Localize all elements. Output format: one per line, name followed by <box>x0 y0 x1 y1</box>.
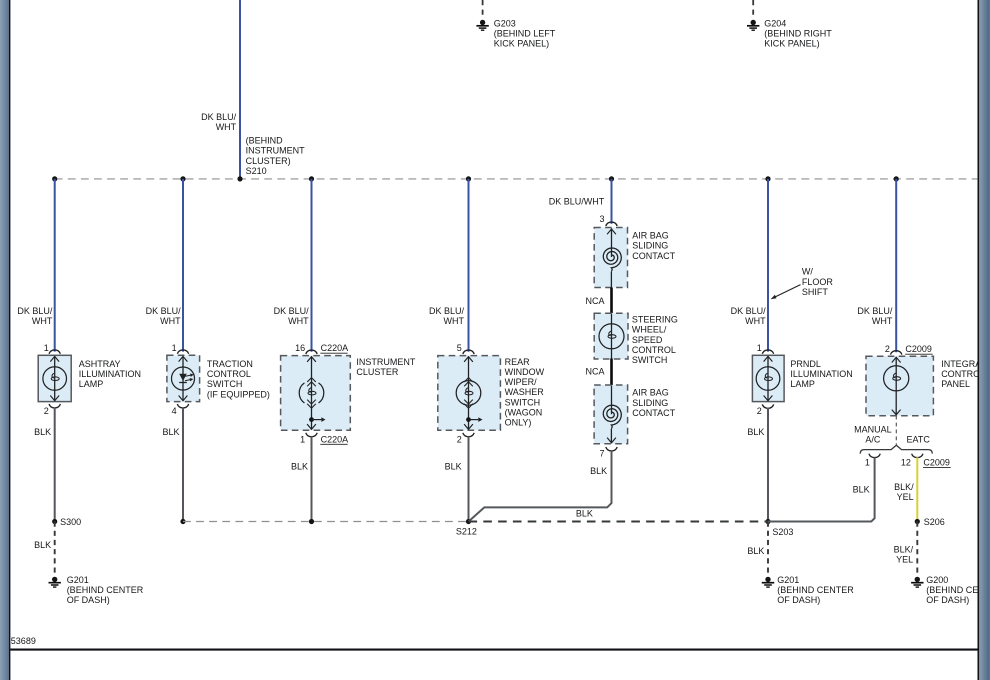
svg-text:SPEED: SPEED <box>632 335 663 345</box>
wire: BLK air bag to S212 <box>469 451 612 522</box>
svg-text:(BEHIND RIGHT: (BEHIND RIGHT <box>764 29 832 39</box>
chevrons up (cluster) <box>307 378 316 387</box>
internal circuit line (ashtray) <box>54 356 56 401</box>
label S206 <box>924 517 945 527</box>
svg-text:CLUSTER): CLUSTER) <box>246 156 291 166</box>
component box (air bag sliding contact upper) <box>594 228 627 288</box>
wire: DK BLU/WHT to air bag sliding contact <box>611 179 613 224</box>
arrow up (traction) <box>179 356 188 361</box>
svg-text:4: 4 <box>172 406 177 416</box>
svg-text:A/C: A/C <box>865 435 881 445</box>
connector half C220A top <box>306 350 317 354</box>
svg-text:YEL: YEL <box>897 492 914 502</box>
wire: DK BLU/WHT to wiper switch <box>468 179 470 352</box>
left window frame bar <box>0 0 9 680</box>
internal circuit line (wiper) <box>468 356 470 429</box>
svg-text:WHT: WHT <box>444 316 465 326</box>
lamp L7 ICP illumination <box>884 366 909 391</box>
internal circuit line (steering sw) <box>611 314 613 359</box>
junction air bag branch <box>609 176 614 181</box>
svg-text:WHT: WHT <box>32 316 53 326</box>
svg-text:53689: 53689 <box>11 636 36 646</box>
label INTEGRATED CONTROL PANEL <box>941 359 990 389</box>
label BLK/YEL (S206 ground leg) <box>894 544 914 564</box>
connector half (ashtray bottom) <box>49 404 60 408</box>
wire: DK BLU/WHT to PRNDL lamp <box>767 179 769 352</box>
label S203 <box>772 527 793 537</box>
svg-text:C2009: C2009 <box>905 344 932 354</box>
junction cluster branch <box>309 176 314 181</box>
junction S203 <box>765 519 770 524</box>
junction wiper branch <box>466 176 471 181</box>
connector half (wiper top) <box>463 350 474 354</box>
wire: BLK traction to bus <box>182 408 184 522</box>
pin 2 (wiper switch) <box>457 434 462 444</box>
label STEERING WHEEL/SPEED CONTROL SWITCH <box>632 315 678 365</box>
arrow up (ashtray) <box>50 356 59 361</box>
connector half (manual A/C) <box>869 454 880 458</box>
svg-text:NCA: NCA <box>585 296 604 306</box>
wire: DK BLU/WHT to instrument cluster <box>311 179 313 352</box>
label BLK (traction) <box>162 427 179 437</box>
label splice S210 (BEHIND INSTRUMENT CLUSTER) <box>246 136 305 176</box>
svg-text:CONTROL: CONTROL <box>632 345 676 355</box>
junction S300 <box>52 519 57 524</box>
wire: BLK manual A/C to S203 <box>768 457 875 521</box>
svg-text:BLK: BLK <box>291 462 308 472</box>
arrow down (cluster) <box>307 424 316 429</box>
svg-text:(BEHIND LEFT: (BEHIND LEFT <box>494 29 556 39</box>
svg-text:OF DASH): OF DASH) <box>926 595 969 605</box>
pin 2 (ashtray lamp) <box>44 406 49 416</box>
label BLK (manual A/C) <box>853 485 870 495</box>
svg-text:MANUAL: MANUAL <box>854 424 892 434</box>
pin 12 (EATC) <box>901 457 911 467</box>
junction traction branch <box>180 176 185 181</box>
svg-text:BLK: BLK <box>445 462 462 472</box>
component box (traction switch) <box>167 355 200 401</box>
svg-text:DK BLU/: DK BLU/ <box>274 306 310 316</box>
svg-text:CONTROL: CONTROL <box>207 369 251 379</box>
svg-text:INSTRUMENT: INSTRUMENT <box>246 146 305 156</box>
svg-text:S206: S206 <box>924 517 945 527</box>
pin 16 (cluster) <box>295 343 305 353</box>
wire: DK BLU/WHT feed from fuse panel <box>239 0 241 179</box>
svg-text:WHT: WHT <box>160 316 181 326</box>
pin 1 (cluster) <box>300 434 305 444</box>
svg-text:OF DASH): OF DASH) <box>67 595 110 605</box>
label BLK (cluster) <box>291 462 308 472</box>
arrow up (PRNDL) <box>764 356 773 361</box>
lamp L6 PRNDL illumination <box>756 367 780 391</box>
options bracket <box>860 445 932 453</box>
svg-text:DK BLU/: DK BLU/ <box>857 306 893 316</box>
arrow up (cluster) <box>307 357 316 362</box>
svg-text:1: 1 <box>172 343 177 353</box>
svg-text:BLK: BLK <box>853 485 870 495</box>
svg-text:WHT: WHT <box>288 316 309 326</box>
lamp symbol steering wheel switch <box>599 324 624 349</box>
svg-text:3: 3 <box>599 214 604 224</box>
svg-text:S300: S300 <box>60 517 81 527</box>
branch junction + arrow (cluster) <box>309 417 325 422</box>
connector label C220A (top) <box>320 343 348 353</box>
svg-text:BLK/: BLK/ <box>894 544 914 554</box>
label S212 <box>456 527 477 537</box>
svg-text:KICK PANEL): KICK PANEL) <box>764 39 819 49</box>
connector half (PRNDL top) <box>762 350 773 354</box>
pin 4 (traction switch) <box>172 406 177 416</box>
connector label C2009 (bottom) <box>923 457 951 467</box>
svg-text:BLK/: BLK/ <box>894 482 914 492</box>
svg-text:WHT: WHT <box>872 316 893 326</box>
wire: BLK wiper to S212 <box>468 436 470 521</box>
wire: BLK/YEL EATC to S206 <box>916 457 918 521</box>
pin 1 (PRNDL lamp) <box>757 343 762 353</box>
label BLK (S300 ground leg) <box>34 540 51 550</box>
connector half (PRNDL bottom) <box>762 404 773 408</box>
svg-text:W/: W/ <box>802 267 813 277</box>
wire: NCA segment upper <box>610 288 613 314</box>
wire: dashed BLK S300 to G201 <box>54 522 56 573</box>
svg-text:OF DASH): OF DASH) <box>777 595 820 605</box>
arrow down (wiper) <box>464 424 473 429</box>
internal line entry (air bag lower) <box>611 386 613 415</box>
wire: NCA segment lower <box>610 358 613 385</box>
label DK BLU/WHT (ICP) <box>857 306 893 326</box>
label DK BLU/WHT (traction) <box>146 306 182 326</box>
svg-text:SWITCH: SWITCH <box>207 379 243 389</box>
connector half (EATC) <box>912 454 923 458</box>
junction cluster/bus <box>309 519 314 524</box>
ground G200 <box>911 577 923 587</box>
label BLK (air bag) <box>590 466 607 476</box>
arrow down (air bag lower) <box>607 438 616 443</box>
svg-text:AIR BAG: AIR BAG <box>632 388 669 398</box>
arrow down (traction) <box>179 396 188 401</box>
svg-text:DK BLU/: DK BLU/ <box>731 306 767 316</box>
label INSTRUMENT CLUSTER <box>356 357 415 377</box>
pin 1 (traction switch) <box>172 343 177 353</box>
svg-text:BLK: BLK <box>162 427 179 437</box>
component box (air bag sliding contact lower) <box>594 385 628 444</box>
label MANUAL A/C <box>854 424 892 444</box>
arrow up (ICP) <box>892 357 901 362</box>
svg-text:DK BLU/WHT: DK BLU/WHT <box>549 196 605 206</box>
svg-text:BLK: BLK <box>590 466 607 476</box>
svg-text:SWITCH: SWITCH <box>632 355 668 365</box>
label DK BLU/WHT (air bag) <box>549 196 605 206</box>
label DK BLU/WHT (ashtray) <box>17 306 53 326</box>
switch symbol Q traction control (LED) <box>172 367 195 390</box>
connector half C2009 top <box>891 351 902 355</box>
connector half (traction top) <box>177 350 188 354</box>
svg-text:G204: G204 <box>764 19 786 29</box>
connector label C2009 (top) <box>905 344 933 354</box>
svg-text:CONTACT: CONTACT <box>632 251 675 261</box>
svg-text:PANEL: PANEL <box>941 379 970 389</box>
svg-text:2: 2 <box>44 406 49 416</box>
label NCA (lower) <box>585 366 604 376</box>
connector half (ashtray top) <box>49 350 60 354</box>
svg-text:SHIFT: SHIFT <box>802 287 829 297</box>
label TRACTION CONTROL SWITCH (IF EQUIPPED) <box>207 359 270 399</box>
wire: dashed to G204 <box>752 0 754 17</box>
arrow down (ashtray) <box>50 396 59 401</box>
label DK BLU/WHT (cluster) <box>274 306 310 326</box>
label EATC <box>907 435 931 445</box>
wire: BLK ashtray to S300 <box>54 408 56 522</box>
label S300 <box>60 517 81 527</box>
svg-text:BLK: BLK <box>576 508 593 518</box>
label BLK (air bag horizontal run) <box>576 508 593 518</box>
component box (integrated control panel) <box>866 356 933 416</box>
svg-text:DK BLU/: DK BLU/ <box>146 306 182 316</box>
label G201 (BEHIND CENTER OF DASH) right <box>777 575 854 605</box>
ground G201 (left) <box>49 577 61 587</box>
svg-text:ILLUMINATION: ILLUMINATION <box>790 369 852 379</box>
svg-text:INSTRUMENT: INSTRUMENT <box>356 357 415 367</box>
wire: DK BLU/WHT to traction switch <box>182 179 184 352</box>
wire: BLK PRNDL to S203 <box>767 408 769 522</box>
svg-text:WIPER/: WIPER/ <box>505 377 538 387</box>
label AIR BAG SLIDING CONTACT (upper) <box>632 231 675 261</box>
svg-text:WASHER: WASHER <box>505 387 545 397</box>
clockspring spiral (lower) <box>603 405 621 428</box>
pin 5 (wiper switch) <box>457 343 462 353</box>
pin 3 (air bag contact) <box>599 214 604 224</box>
pin 1 (manual A/C) <box>865 457 870 467</box>
chevrons up (wiper) <box>464 378 473 387</box>
svg-text:S210: S210 <box>246 166 267 176</box>
svg-text:KICK PANEL): KICK PANEL) <box>494 39 549 49</box>
svg-text:NCA: NCA <box>585 366 604 376</box>
arrow up (air bag upper) <box>607 229 616 234</box>
lamp L1 ashtray illumination <box>43 367 67 391</box>
junction ashtray branch <box>52 176 57 181</box>
svg-text:C220A: C220A <box>321 343 349 353</box>
branch junction + arrow (wiper) <box>466 417 482 422</box>
svg-text:16: 16 <box>295 343 305 353</box>
svg-text:WHT: WHT <box>745 316 766 326</box>
diagram page left border <box>9 0 11 680</box>
junction S206 <box>915 519 920 524</box>
svg-text:REAR: REAR <box>505 357 531 367</box>
svg-text:1: 1 <box>44 343 49 353</box>
svg-text:DK BLU/: DK BLU/ <box>429 306 465 316</box>
svg-text:C2009: C2009 <box>923 457 950 467</box>
diagram page right border <box>978 0 980 680</box>
pin 2 (PRNDL lamp) <box>757 406 762 416</box>
label BLK (PRNDL) <box>747 427 764 437</box>
arrow up (wiper) <box>464 357 473 362</box>
wire: splice bus S210 (dashed) <box>55 178 978 180</box>
component box (instrument cluster) <box>281 356 351 431</box>
wire: ground bus dashed (traction to S212) <box>183 521 469 523</box>
svg-text:ILLUMINATION: ILLUMINATION <box>79 369 141 379</box>
ground G201 (right) <box>762 577 774 587</box>
pin 2 (ICP) <box>885 344 890 354</box>
svg-text:2: 2 <box>757 406 762 416</box>
svg-text:DK BLU/: DK BLU/ <box>201 112 237 122</box>
svg-text:CONTACT: CONTACT <box>632 408 675 418</box>
svg-text:1: 1 <box>865 457 870 467</box>
junction traction/bus <box>180 519 185 524</box>
component box (wiper switch) <box>438 356 501 431</box>
internal line entry (air bag upper) <box>611 228 613 257</box>
label BLK (ashtray) <box>34 427 51 437</box>
label PRNDL ILLUMINATION LAMP <box>790 359 852 389</box>
svg-text:2: 2 <box>457 434 462 444</box>
internal circuit line (ICP) <box>895 357 897 415</box>
svg-text:S212: S212 <box>456 527 477 537</box>
label AIR BAG SLIDING CONTACT (lower) <box>632 388 675 418</box>
svg-text:STEERING: STEERING <box>632 315 678 325</box>
svg-text:C220A: C220A <box>321 434 349 444</box>
diagram page bottom border <box>10 649 977 651</box>
component box (steering wheel/speed control switch) <box>594 313 628 359</box>
svg-text:(IF EQUIPPED): (IF EQUIPPED) <box>207 389 270 399</box>
internal circuit line (traction) <box>182 356 184 401</box>
internal circuit line (cluster) <box>311 356 313 429</box>
svg-text:5: 5 <box>457 343 462 353</box>
wire: DK BLU/WHT to ashtray lamp <box>54 179 56 352</box>
lamp box (ashtray) <box>38 355 71 401</box>
lamp L3 cluster illumination (dashed circle) <box>299 383 324 403</box>
chevrons down (cluster) <box>307 400 316 409</box>
svg-text:G201: G201 <box>777 575 799 585</box>
svg-text:AIR BAG: AIR BAG <box>632 231 669 241</box>
wire: dashed BLK S203 to G201 <box>767 522 769 573</box>
svg-text:WINDOW: WINDOW <box>505 367 545 377</box>
svg-text:(BEHIND: (BEHIND <box>246 136 284 146</box>
clockspring spiral (upper) <box>603 248 621 271</box>
label BLK/YEL (EATC) <box>894 482 914 502</box>
svg-text:BLK: BLK <box>747 546 764 556</box>
svg-text:ASHTRAY: ASHTRAY <box>79 359 121 369</box>
callout arrow to PRNDL wire <box>771 285 801 300</box>
svg-text:FLOOR: FLOOR <box>802 277 834 287</box>
dashed option divider (ICP) <box>895 416 897 445</box>
pin 7 (air bag contact) <box>599 448 604 458</box>
svg-text:2: 2 <box>885 344 890 354</box>
svg-text:(WAGON: (WAGON <box>505 407 543 417</box>
label BLK (wiper) <box>445 462 462 472</box>
wire: dashed to G203 <box>482 0 484 17</box>
svg-text:TRACTION: TRACTION <box>207 359 253 369</box>
svg-text:12: 12 <box>901 457 911 467</box>
wire: DK BLU/WHT to integrated control panel <box>895 179 897 352</box>
label G200 (BEHIND CENTER OF DASH) <box>926 575 990 605</box>
right window frame bar <box>979 0 990 680</box>
svg-text:7: 7 <box>599 448 604 458</box>
label G201 (BEHIND CENTER OF DASH) left <box>67 575 144 605</box>
label ASHTRAY ILLUMINATION LAMP <box>79 359 141 389</box>
connector half (traction bottom) <box>177 404 188 408</box>
svg-text:LAMP: LAMP <box>790 379 815 389</box>
ground G204 <box>747 20 759 30</box>
svg-text:G203: G203 <box>494 19 516 29</box>
svg-text:LAMP: LAMP <box>79 379 104 389</box>
svg-text:(BEHIND CENTER: (BEHIND CENTER <box>67 585 144 595</box>
svg-text:G200: G200 <box>926 575 948 585</box>
svg-text:BLK: BLK <box>34 540 51 550</box>
svg-text:S203: S203 <box>772 527 793 537</box>
wire: BLK cluster to bus <box>311 436 313 521</box>
label DK BLU/WHT (wiper) <box>429 306 465 326</box>
svg-text:DK BLU/: DK BLU/ <box>17 306 53 316</box>
label G204 (BEHIND RIGHT KICK PANEL) <box>764 19 832 49</box>
arrow down (ICP) <box>892 410 901 415</box>
internal circuit line (PRNDL) <box>767 356 769 401</box>
arrow down (PRNDL) <box>764 396 773 401</box>
svg-text:BLK: BLK <box>34 427 51 437</box>
svg-text:1: 1 <box>757 343 762 353</box>
svg-text:EATC: EATC <box>907 435 931 445</box>
internal line exit (air bag upper) <box>610 271 612 287</box>
svg-text:SWITCH: SWITCH <box>505 397 540 407</box>
svg-text:YEL: YEL <box>896 555 913 565</box>
svg-text:BLK: BLK <box>747 427 764 437</box>
lamp L4 wiper switch illumination <box>456 381 481 406</box>
svg-text:1: 1 <box>300 434 305 444</box>
sheet number 53689 <box>11 636 36 646</box>
svg-text:WHEEL/: WHEEL/ <box>632 325 667 335</box>
pin 1 (ashtray lamp) <box>44 343 49 353</box>
wire: ground bus dashed (S212 to S203) <box>469 520 769 522</box>
svg-text:G201: G201 <box>67 575 89 585</box>
lamp box (PRNDL) <box>752 355 784 401</box>
svg-text:ONLY): ONLY) <box>505 418 532 428</box>
connector label C220A (bottom) <box>320 434 348 444</box>
svg-text:CLUSTER: CLUSTER <box>356 367 399 377</box>
label BLK (S203 ground leg) <box>747 546 764 556</box>
wire: dashed BLK/YEL S206 to G200 <box>916 522 918 573</box>
label G203 (BEHIND LEFT KICK PANEL) <box>494 19 556 49</box>
junction S212 <box>466 519 471 524</box>
svg-text:WHT: WHT <box>216 122 237 132</box>
connector half (wiper bottom) <box>463 433 474 437</box>
connector half (air bag bottom) <box>606 447 617 451</box>
svg-text:SLIDING: SLIDING <box>632 398 668 408</box>
connector half C220A bottom <box>306 433 317 437</box>
junction S210 feed <box>237 176 242 181</box>
svg-text:PRNDL: PRNDL <box>790 359 821 369</box>
svg-text:(BEHIND CENTER: (BEHIND CENTER <box>777 585 854 595</box>
ground G203 <box>476 20 488 30</box>
label NCA (upper) <box>585 296 604 306</box>
label DK BLU/WHT (PRNDL) <box>731 306 767 326</box>
chevrons down (wiper) <box>464 400 473 409</box>
label REAR WINDOW WIPER/WASHER SWITCH (WAGON ONLY) <box>505 357 545 428</box>
svg-text:SLIDING: SLIDING <box>632 241 668 251</box>
label DK BLU/WHT (feed) <box>201 112 237 132</box>
junction PRNDL branch <box>765 176 770 181</box>
junction ICP branch <box>894 176 899 181</box>
internal line exit (air bag lower) <box>610 429 612 443</box>
label W/ FLOOR SHIFT <box>802 267 834 297</box>
connector half (air bag top) <box>606 222 617 226</box>
